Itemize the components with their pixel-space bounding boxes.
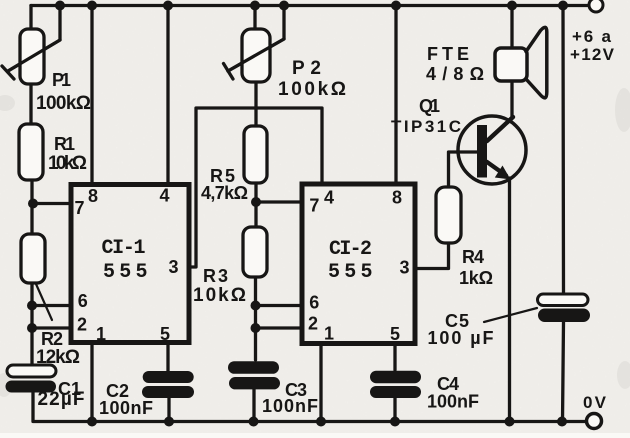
svg-text:10kΩ: 10kΩ [48, 153, 87, 174]
svg-text:+6 a: +6 a [572, 27, 612, 46]
svg-text:6: 6 [309, 293, 319, 313]
svg-text:4/8Ω: 4/8Ω [426, 64, 484, 84]
svg-text:3: 3 [168, 257, 178, 277]
svg-text:4: 4 [324, 188, 334, 208]
svg-text:R4: R4 [462, 247, 484, 267]
svg-text:8: 8 [392, 188, 402, 208]
svg-text:100nF: 100nF [427, 392, 479, 412]
svg-text:2: 2 [308, 314, 318, 334]
svg-text:555: 555 [328, 261, 373, 284]
svg-text:FTE: FTE [427, 44, 469, 64]
svg-text:0V: 0V [583, 393, 607, 412]
svg-text:6: 6 [78, 291, 88, 311]
svg-text:R1: R1 [54, 134, 75, 154]
svg-text:12kΩ: 12kΩ [36, 347, 80, 368]
svg-text:Q1: Q1 [419, 96, 440, 116]
svg-text:5: 5 [160, 324, 170, 344]
svg-text:1kΩ: 1kΩ [459, 268, 493, 288]
svg-text:R3: R3 [203, 266, 228, 286]
svg-text:+12V: +12V [570, 45, 615, 64]
svg-text:10kΩ: 10kΩ [193, 285, 246, 306]
svg-text:555: 555 [103, 261, 148, 284]
svg-text:P1: P1 [52, 70, 71, 90]
svg-text:100nF: 100nF [99, 398, 153, 418]
svg-text:8: 8 [88, 186, 98, 206]
svg-text:R2: R2 [41, 329, 63, 349]
svg-text:4,7kΩ: 4,7kΩ [201, 183, 248, 203]
svg-text:4: 4 [159, 186, 169, 206]
svg-text:3: 3 [399, 258, 409, 278]
svg-text:1: 1 [96, 324, 106, 344]
svg-text:7: 7 [309, 196, 319, 216]
svg-text:CI-2: CI-2 [329, 238, 372, 261]
svg-text:7: 7 [74, 198, 84, 218]
svg-text:100kΩ: 100kΩ [278, 79, 346, 100]
svg-text:100kΩ: 100kΩ [36, 93, 91, 114]
svg-text:5: 5 [390, 324, 400, 344]
svg-text:100nF: 100nF [262, 396, 318, 416]
svg-text:1: 1 [324, 324, 334, 344]
svg-text:2: 2 [77, 315, 87, 335]
svg-text:100 µF: 100 µF [428, 328, 494, 348]
svg-text:22µF: 22µF [38, 389, 85, 410]
svg-text:CI-1: CI-1 [102, 237, 146, 260]
